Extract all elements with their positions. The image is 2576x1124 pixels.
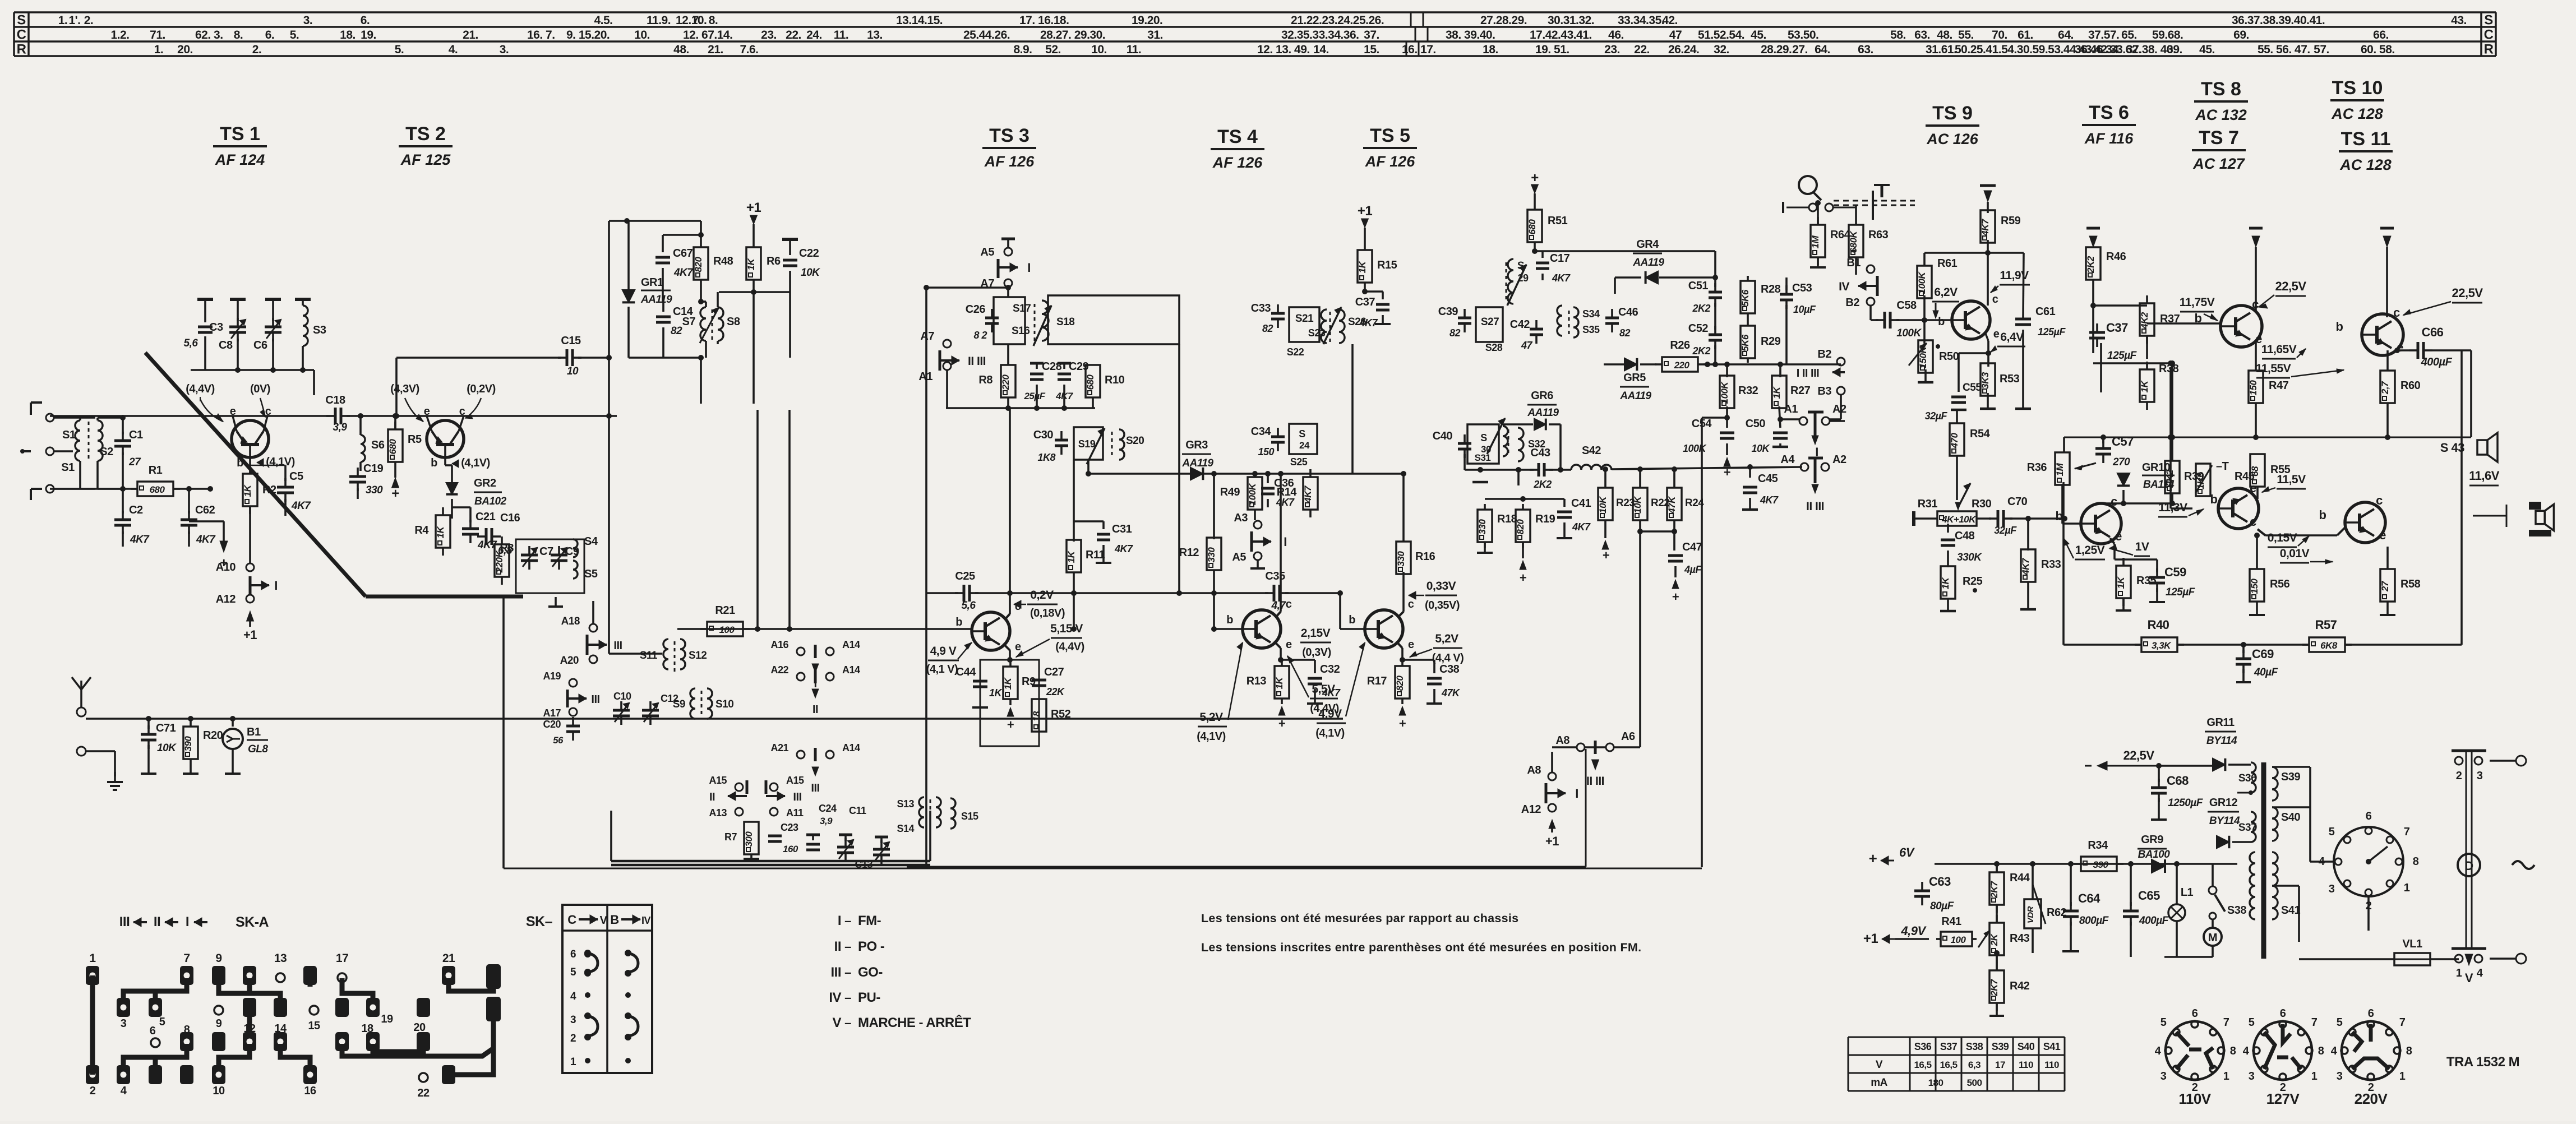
svg-text:390: 390 xyxy=(2093,859,2109,870)
svg-text:C71: C71 xyxy=(156,722,176,734)
svg-text:2K2: 2K2 xyxy=(2085,256,2096,274)
svg-text:A5: A5 xyxy=(980,246,994,258)
svg-text:57.: 57. xyxy=(2314,43,2329,56)
svg-text:C63: C63 xyxy=(1929,875,1951,889)
svg-text:GR12: GR12 xyxy=(2209,797,2238,809)
svg-text:110: 110 xyxy=(2019,1060,2033,1070)
svg-text:TS 9: TS 9 xyxy=(1932,103,1973,124)
svg-text:2K7: 2K7 xyxy=(1989,978,2000,997)
svg-text:2,7: 2,7 xyxy=(2380,381,2390,395)
svg-text:6: 6 xyxy=(150,1025,156,1037)
svg-text:A12: A12 xyxy=(216,593,236,605)
svg-text:c: c xyxy=(1286,598,1292,610)
svg-text:c: c xyxy=(2111,494,2117,508)
svg-text:FM-: FM- xyxy=(858,913,881,928)
svg-text:R6: R6 xyxy=(767,255,781,267)
svg-text:110: 110 xyxy=(2044,1060,2059,1070)
svg-text:AA119: AA119 xyxy=(1619,390,1651,402)
svg-text:4,9 V: 4,9 V xyxy=(930,645,957,658)
svg-text:1V: 1V xyxy=(2135,540,2149,553)
svg-text:26.24.: 26.24. xyxy=(1668,43,1699,56)
svg-text:C44: C44 xyxy=(956,666,977,678)
svg-text:4K7: 4K7 xyxy=(2020,557,2031,576)
svg-text:220: 220 xyxy=(1000,374,1011,391)
svg-text:22,5V: 22,5V xyxy=(2275,279,2307,293)
svg-text:TS 11: TS 11 xyxy=(2341,128,2391,150)
svg-text:A15: A15 xyxy=(709,775,727,786)
svg-text:15: 15 xyxy=(308,1020,320,1032)
svg-text:C: C xyxy=(17,27,26,43)
svg-text:3,9: 3,9 xyxy=(333,422,348,433)
svg-text:c: c xyxy=(2393,306,2400,320)
svg-text:C25: C25 xyxy=(955,570,975,582)
svg-text:11,65V: 11,65V xyxy=(2261,343,2297,356)
svg-text:V: V xyxy=(2465,971,2473,985)
svg-text:25µF: 25µF xyxy=(1023,391,1045,401)
svg-text:19.20.: 19.20. xyxy=(1132,14,1162,27)
svg-text:C33: C33 xyxy=(1251,302,1271,314)
svg-text:S21: S21 xyxy=(1295,313,1314,325)
svg-text:b: b xyxy=(1349,614,1355,626)
svg-text:7: 7 xyxy=(2311,1016,2318,1029)
svg-text:+1: +1 xyxy=(243,628,257,642)
svg-text:58.: 58. xyxy=(1890,29,1906,41)
svg-text:C: C xyxy=(567,913,576,927)
svg-text:5K6: 5K6 xyxy=(1740,334,1751,351)
svg-text:48.: 48. xyxy=(1937,29,1952,41)
svg-text:S17: S17 xyxy=(1013,303,1031,314)
svg-text:82: 82 xyxy=(1619,327,1631,339)
svg-text:1K: 1K xyxy=(242,484,253,497)
svg-text:100: 100 xyxy=(1951,935,1966,945)
svg-text:C22: C22 xyxy=(799,247,819,260)
svg-text:4.: 4. xyxy=(449,43,458,56)
svg-text:S41: S41 xyxy=(2281,904,2300,917)
svg-text:C3: C3 xyxy=(209,321,223,334)
svg-text:A3: A3 xyxy=(1234,512,1248,524)
svg-text:9: 9 xyxy=(215,952,221,965)
svg-text:64.: 64. xyxy=(1815,43,1830,56)
svg-text:A19: A19 xyxy=(543,670,561,682)
svg-text:5: 5 xyxy=(570,966,576,978)
svg-text:AC 132: AC 132 xyxy=(2195,107,2247,123)
svg-text:A7: A7 xyxy=(920,330,934,343)
svg-text:24: 24 xyxy=(1299,440,1310,451)
svg-text:e: e xyxy=(1993,328,2000,340)
svg-text:4K7: 4K7 xyxy=(673,267,694,279)
svg-text:R16: R16 xyxy=(1415,551,1435,563)
svg-text:100K: 100K xyxy=(1896,327,1922,339)
svg-text:82: 82 xyxy=(671,325,682,337)
svg-text:C53: C53 xyxy=(1792,282,1812,294)
svg-text:4: 4 xyxy=(2331,1045,2338,1057)
svg-text:D: D xyxy=(2464,859,2473,873)
svg-text:BY114: BY114 xyxy=(2206,735,2237,747)
svg-text:R56: R56 xyxy=(2270,578,2290,590)
svg-text:III: III xyxy=(830,965,841,980)
svg-text:III: III xyxy=(793,791,801,803)
svg-text:22: 22 xyxy=(417,1087,430,1099)
svg-text:C34: C34 xyxy=(1251,425,1272,438)
svg-text:9: 9 xyxy=(216,1017,222,1030)
svg-text:R8: R8 xyxy=(978,374,992,386)
svg-text:2: 2 xyxy=(90,1085,96,1097)
svg-text:PU-: PU- xyxy=(858,990,880,1005)
svg-text:8: 8 xyxy=(2318,1045,2324,1057)
svg-text:55.: 55. xyxy=(1958,29,1974,41)
svg-text:B: B xyxy=(610,913,618,927)
svg-text:16: 16 xyxy=(304,1085,316,1097)
svg-text:12.10.: 12.10. xyxy=(676,14,707,27)
svg-text:17.42.43.41.: 17.42.43.41. xyxy=(1530,29,1592,41)
svg-text:III: III xyxy=(119,914,130,929)
svg-text:71.: 71. xyxy=(150,29,165,41)
svg-text:A4: A4 xyxy=(1780,454,1795,466)
svg-text:C70: C70 xyxy=(2007,496,2028,508)
svg-text:7: 7 xyxy=(2399,1016,2406,1029)
svg-text:R33: R33 xyxy=(2041,558,2061,571)
svg-text:A12: A12 xyxy=(1521,803,1541,816)
svg-text:C38: C38 xyxy=(1439,663,1460,676)
svg-text:3.: 3. xyxy=(500,43,509,56)
svg-text:R21: R21 xyxy=(715,604,735,617)
svg-text:C47: C47 xyxy=(1682,541,1702,553)
svg-text:C12: C12 xyxy=(661,693,678,704)
svg-text:(4,3V): (4,3V) xyxy=(390,383,419,395)
svg-text:R36: R36 xyxy=(2027,461,2047,474)
svg-text:330: 330 xyxy=(1396,551,1406,567)
svg-text:51.52.54.: 51.52.54. xyxy=(1698,29,1744,41)
svg-text:3: 3 xyxy=(2160,1070,2167,1083)
svg-text:C66: C66 xyxy=(2422,325,2444,339)
svg-text:R18: R18 xyxy=(1497,513,1517,525)
svg-text:R34: R34 xyxy=(2088,839,2108,852)
svg-text:BA102: BA102 xyxy=(474,496,507,507)
svg-text:64.: 64. xyxy=(2058,29,2074,41)
svg-text:4K+10K: 4K+10K xyxy=(1941,514,1977,525)
svg-text:7: 7 xyxy=(2223,1016,2229,1029)
svg-text:680: 680 xyxy=(387,439,398,455)
svg-text:+: + xyxy=(391,486,399,501)
svg-text:+1: +1 xyxy=(746,200,761,215)
svg-text:C24: C24 xyxy=(819,803,837,814)
svg-text:R10: R10 xyxy=(1105,374,1125,386)
svg-text:C30: C30 xyxy=(1033,429,1054,441)
svg-text:V: V xyxy=(600,914,608,927)
svg-text:32µF: 32µF xyxy=(1925,410,1948,422)
svg-text:21.: 21. xyxy=(708,43,723,56)
svg-text:47K: 47K xyxy=(1441,687,1461,699)
svg-text:(4,1V): (4,1V) xyxy=(266,456,294,468)
svg-text:100: 100 xyxy=(719,625,735,635)
svg-text:R51: R51 xyxy=(1548,215,1568,227)
svg-text:C26: C26 xyxy=(966,303,986,316)
svg-text:18.: 18. xyxy=(1483,43,1498,56)
svg-text:800µF: 800µF xyxy=(2079,915,2109,927)
svg-text:31.61.: 31.61. xyxy=(1926,43,1956,56)
svg-text:4K7: 4K7 xyxy=(1552,272,1571,284)
svg-text:S40: S40 xyxy=(2281,811,2300,824)
svg-text:100K: 100K xyxy=(1917,271,1927,294)
svg-text:43.: 43. xyxy=(2451,14,2467,27)
svg-text:(0,18V): (0,18V) xyxy=(1030,607,1065,619)
svg-text:69.: 69. xyxy=(2233,29,2249,41)
svg-text:11,6V: 11,6V xyxy=(2469,469,2500,483)
svg-text:0,01V: 0,01V xyxy=(2280,547,2310,560)
svg-text:3: 3 xyxy=(121,1017,127,1030)
svg-text:S39: S39 xyxy=(2281,771,2300,783)
svg-text:S13: S13 xyxy=(897,798,914,810)
svg-text:5,2V: 5,2V xyxy=(1199,711,1223,724)
svg-text:TS 5: TS 5 xyxy=(1370,125,1410,146)
svg-text:C48: C48 xyxy=(1955,530,1975,542)
svg-text:1K8: 1K8 xyxy=(1037,452,1055,463)
svg-text:B3: B3 xyxy=(1817,385,1831,397)
svg-text:S3: S3 xyxy=(313,324,326,336)
svg-text:TS 8: TS 8 xyxy=(2201,78,2241,100)
svg-text:330: 330 xyxy=(1477,519,1488,535)
svg-text:220V: 220V xyxy=(2355,1090,2388,1107)
svg-text:S20: S20 xyxy=(1126,435,1144,447)
svg-text:A13: A13 xyxy=(709,807,727,818)
svg-text:C32: C32 xyxy=(1320,663,1340,676)
svg-text:S2: S2 xyxy=(100,446,113,458)
svg-text:R29: R29 xyxy=(1761,335,1781,348)
svg-text:A8: A8 xyxy=(1527,764,1541,776)
svg-text:330: 330 xyxy=(366,484,383,496)
svg-text:R32: R32 xyxy=(1738,385,1758,397)
svg-text:11.: 11. xyxy=(1127,43,1142,56)
svg-text:330K: 330K xyxy=(1957,552,1982,563)
svg-text:100K: 100K xyxy=(1247,482,1258,505)
svg-text:A17: A17 xyxy=(543,707,561,719)
svg-text:820: 820 xyxy=(1515,519,1526,535)
svg-text:32.: 32. xyxy=(1714,43,1729,56)
svg-text:S37: S37 xyxy=(2238,822,2256,834)
svg-text:180: 180 xyxy=(1928,1077,1943,1088)
svg-text:5: 5 xyxy=(2249,1016,2255,1029)
svg-text:4K7: 4K7 xyxy=(1303,485,1313,503)
svg-text:17: 17 xyxy=(336,952,348,965)
svg-text:S14: S14 xyxy=(897,823,914,834)
svg-text:VDR: VDR xyxy=(2026,906,2035,923)
svg-text:S27: S27 xyxy=(1481,316,1499,328)
svg-text:R43: R43 xyxy=(2010,932,2030,945)
svg-text:C16: C16 xyxy=(500,512,520,524)
svg-text:0,2V: 0,2V xyxy=(1030,589,1054,602)
svg-text:S11: S11 xyxy=(640,650,658,662)
svg-text:–: – xyxy=(844,991,851,1005)
svg-text:C23: C23 xyxy=(781,822,798,833)
svg-text:BY114: BY114 xyxy=(2209,815,2240,827)
svg-text:R14: R14 xyxy=(1277,486,1298,498)
svg-text:S35: S35 xyxy=(1582,324,1600,335)
svg-text:C8: C8 xyxy=(219,339,233,351)
svg-text:R58: R58 xyxy=(2400,578,2421,590)
svg-text:A18: A18 xyxy=(561,616,580,627)
svg-text:A2: A2 xyxy=(1832,454,1846,466)
svg-text:4K7: 4K7 xyxy=(1114,543,1133,554)
svg-text:B2: B2 xyxy=(1845,297,1859,309)
svg-text:C15: C15 xyxy=(561,335,581,347)
svg-text:14.: 14. xyxy=(1313,43,1329,56)
svg-text:36.46.34.: 36.46.34. xyxy=(2075,43,2121,56)
svg-text:A22: A22 xyxy=(770,664,788,676)
svg-text:63.: 63. xyxy=(1914,29,1930,41)
svg-text:C10: C10 xyxy=(613,691,631,702)
svg-text:C58: C58 xyxy=(1896,299,1917,312)
svg-text:C13: C13 xyxy=(855,859,872,870)
svg-text:R28: R28 xyxy=(1761,283,1781,295)
svg-text:R27: R27 xyxy=(1790,385,1811,397)
svg-text:C52: C52 xyxy=(1688,322,1709,335)
svg-text:7: 7 xyxy=(2404,826,2410,838)
svg-text:11.: 11. xyxy=(834,29,849,41)
svg-text:127V: 127V xyxy=(2266,1090,2300,1107)
svg-text:9. 15.20.: 9. 15.20. xyxy=(566,29,610,41)
svg-text:18.: 18. xyxy=(340,29,356,41)
svg-text:820: 820 xyxy=(1395,676,1405,691)
svg-text:I: I xyxy=(186,914,189,929)
svg-text:21.: 21. xyxy=(463,29,478,41)
svg-text:R19: R19 xyxy=(1535,513,1555,525)
svg-text:A10: A10 xyxy=(216,561,236,573)
svg-text:C2: C2 xyxy=(129,504,143,516)
svg-text:C5: C5 xyxy=(289,470,303,483)
svg-text:5.: 5. xyxy=(395,43,404,56)
svg-text:C59: C59 xyxy=(2164,565,2186,579)
svg-text:1.: 1. xyxy=(154,43,164,56)
svg-text:11.9.: 11.9. xyxy=(647,14,671,27)
svg-text:1K: 1K xyxy=(1274,676,1285,689)
svg-text:4K7: 4K7 xyxy=(1980,218,1991,237)
svg-text:AA119: AA119 xyxy=(1632,257,1664,269)
svg-text:10: 10 xyxy=(213,1085,225,1097)
svg-text:3: 3 xyxy=(570,1014,576,1026)
svg-text:C68: C68 xyxy=(2167,774,2189,788)
svg-text:IV: IV xyxy=(1839,280,1849,293)
svg-text:R13: R13 xyxy=(1247,675,1267,687)
svg-text:b: b xyxy=(1226,614,1233,626)
svg-text:36.37.38.39.40.41.: 36.37.38.39.40.41. xyxy=(2232,14,2325,27)
svg-text:62. 3.: 62. 3. xyxy=(195,29,223,41)
svg-text:27: 27 xyxy=(2380,580,2390,592)
svg-text:6.: 6. xyxy=(265,29,275,41)
svg-text:SK–: SK– xyxy=(526,914,553,929)
svg-text:100K: 100K xyxy=(1719,381,1730,404)
svg-text:1.: 1. xyxy=(58,14,68,27)
svg-text:1: 1 xyxy=(2399,1070,2406,1083)
svg-text:110V: 110V xyxy=(2178,1090,2211,1107)
svg-text:1'.: 1'. xyxy=(68,14,80,27)
svg-text:C18: C18 xyxy=(325,394,345,406)
svg-text:4K7: 4K7 xyxy=(291,500,311,512)
svg-text:–T: –T xyxy=(2216,460,2229,473)
svg-text:C67: C67 xyxy=(673,247,693,260)
svg-text:4: 4 xyxy=(2243,1045,2250,1057)
svg-text:AA119: AA119 xyxy=(640,294,672,306)
svg-text:c: c xyxy=(265,405,271,418)
svg-text:S22: S22 xyxy=(1287,346,1304,358)
svg-text:A21: A21 xyxy=(770,742,788,753)
svg-text:4: 4 xyxy=(121,1085,127,1097)
svg-text:GL8: GL8 xyxy=(248,743,268,755)
svg-text:820: 820 xyxy=(693,257,704,272)
svg-text:3.: 3. xyxy=(303,14,313,27)
svg-text:Les tensions ont été mesu: Les tensions ont été mesurées par rappor… xyxy=(1201,912,1518,925)
svg-text:AC 127: AC 127 xyxy=(2192,155,2246,172)
svg-text:2: 2 xyxy=(2456,770,2462,782)
svg-text:R4: R4 xyxy=(414,524,429,536)
svg-text:8.: 8. xyxy=(709,14,718,27)
svg-text:4K7: 4K7 xyxy=(1055,391,1074,401)
svg-text:S31: S31 xyxy=(1475,452,1491,463)
svg-text:I: I xyxy=(1284,535,1287,549)
svg-text:c: c xyxy=(2252,297,2259,311)
svg-text:1K: 1K xyxy=(989,687,1003,699)
svg-text:e: e xyxy=(424,405,430,418)
svg-text:R42: R42 xyxy=(2010,980,2030,992)
svg-text:e: e xyxy=(1408,639,1414,651)
svg-text:S: S xyxy=(1299,428,1305,440)
svg-text:20: 20 xyxy=(413,1021,426,1034)
svg-text:2K2: 2K2 xyxy=(1692,345,1710,357)
svg-text:10µF: 10µF xyxy=(1793,304,1816,315)
svg-text:GR9: GR9 xyxy=(2141,834,2163,846)
svg-text:5.: 5. xyxy=(290,29,299,41)
svg-text:c: c xyxy=(459,405,465,418)
svg-text:S10: S10 xyxy=(715,699,733,710)
svg-text:GO-: GO- xyxy=(858,965,883,980)
svg-text:S36: S36 xyxy=(2238,773,2256,784)
svg-text:680: 680 xyxy=(150,484,165,495)
svg-text:R63: R63 xyxy=(1868,229,1889,241)
svg-text:33.34.35.: 33.34.35. xyxy=(1618,14,1664,27)
svg-text:S18: S18 xyxy=(1056,316,1074,328)
svg-text:I: I xyxy=(838,913,841,928)
svg-text:5: 5 xyxy=(2337,1016,2343,1029)
svg-text:18: 18 xyxy=(1031,711,1042,721)
svg-text:+: + xyxy=(1603,548,1609,562)
svg-text:II III: II III xyxy=(1806,500,1824,513)
svg-text:38. 39.40.: 38. 39.40. xyxy=(1446,29,1495,41)
svg-text:S16: S16 xyxy=(1012,325,1030,337)
svg-text:II: II xyxy=(709,791,715,803)
svg-text:1,25V: 1,25V xyxy=(2075,544,2105,557)
svg-text:C61: C61 xyxy=(2035,306,2056,318)
svg-text:100K: 100K xyxy=(1683,443,1707,454)
svg-text:270: 270 xyxy=(2112,456,2130,468)
svg-text:C42: C42 xyxy=(1510,318,1530,331)
svg-text:10.: 10. xyxy=(634,29,650,41)
svg-text:4: 4 xyxy=(2155,1045,2162,1057)
svg-text:125µF: 125µF xyxy=(2166,586,2196,598)
svg-text:R25: R25 xyxy=(1963,575,1983,588)
svg-text:TS 1: TS 1 xyxy=(220,123,260,145)
svg-text:C6: C6 xyxy=(253,339,267,351)
svg-text:+1: +1 xyxy=(1358,203,1373,219)
svg-text:–: – xyxy=(844,1016,851,1030)
svg-text:16. 7.: 16. 7. xyxy=(527,29,555,41)
svg-text:8.: 8. xyxy=(234,29,243,41)
svg-text:27.28.29.: 27.28.29. xyxy=(1480,14,1527,27)
svg-text:+: + xyxy=(1399,716,1406,730)
svg-text:10: 10 xyxy=(567,366,579,377)
svg-text:5: 5 xyxy=(2160,1016,2167,1029)
svg-text:R15: R15 xyxy=(1377,259,1397,271)
svg-text:b: b xyxy=(2319,508,2326,522)
svg-text:b: b xyxy=(431,457,437,469)
